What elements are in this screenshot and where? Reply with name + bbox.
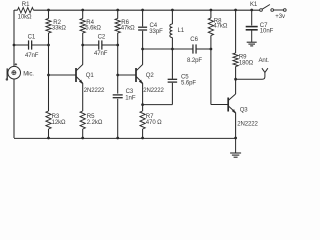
svg-text:K1: K1 [250, 2, 258, 8]
wire tank node to C6 [143, 48, 193, 50]
wire rail to R2 [48, 10, 50, 19]
junction Q2 emitter / C5 link [141, 103, 144, 106]
resistor R9 [233, 53, 238, 67]
wire top rail left segment [14, 9, 18, 11]
antenna Ant. [236, 68, 268, 79]
wire C3 to ground rail [117, 99, 119, 138]
wire R2 to R3 [48, 33, 50, 111]
junction rail/R9 [234, 9, 237, 12]
svg-text:10nF: 10nF [260, 28, 274, 34]
microphone Mic [7, 66, 20, 80]
wire Q3 emitter to ground rail [235, 113, 237, 139]
junction C2/R6 [116, 44, 119, 47]
junction rail/C4 [141, 9, 144, 12]
resistor R7 [140, 111, 145, 129]
svg-text:2.2kΩ: 2.2kΩ [87, 120, 103, 126]
svg-text:C1: C1 [28, 34, 36, 40]
wire Q1 base [49, 74, 77, 76]
transistor Q2 [136, 65, 143, 84]
wire R4 to Q1 collector [82, 33, 84, 65]
wire rail to R8 [210, 10, 212, 18]
capacitor C5 [168, 78, 178, 80]
wire emitter link [143, 104, 173, 106]
junction rail/R6 [116, 9, 119, 12]
junction rail/L1 [171, 9, 174, 12]
wire C1 to node [32, 44, 49, 46]
svg-text:47kΩ: 47kΩ [213, 24, 227, 30]
junction L1/C5 column on tank wire [171, 48, 174, 51]
wire R7 to ground rail [142, 129, 144, 138]
svg-text:8.2pF: 8.2pF [187, 58, 202, 64]
junction antenna tap [234, 78, 237, 81]
svg-text:2N2222: 2N2222 [143, 88, 164, 94]
resistor R1 [18, 8, 34, 13]
capacitor C2 [98, 40, 100, 49]
junction R5/ground rail [81, 137, 84, 140]
svg-text:2N2222: 2N2222 [84, 88, 105, 94]
ground under C7 [247, 30, 257, 46]
wire R8 to Q3 base [210, 36, 212, 105]
junction R3/ground rail [47, 137, 50, 140]
capacitor C3 [113, 94, 123, 96]
resistor R8 [208, 18, 213, 36]
svg-text:C3: C3 [126, 89, 134, 95]
wire rail to R6 [117, 10, 119, 19]
wire mic to C1 [14, 44, 28, 46]
junction mic/C1 [13, 44, 16, 47]
wire L1 to C5 [171, 38, 173, 79]
svg-text:Ant.: Ant. [259, 58, 270, 64]
junction Q2 base tap [116, 74, 119, 77]
capacitor C1 [28, 40, 30, 49]
junction C3/ground rail [116, 137, 119, 140]
wire C2 to node [102, 44, 118, 46]
svg-text:47kΩ: 47kΩ [121, 26, 135, 32]
svg-text:33kΩ: 33kΩ [52, 26, 66, 32]
svg-text:47nF: 47nF [25, 53, 39, 59]
(scan blob at mic capsule base) [6, 78, 8, 81]
junction rail/R8 [210, 9, 213, 12]
junction rail/R2 [47, 9, 50, 12]
svg-text:180Ω: 180Ω [239, 60, 254, 66]
resistor R4 [80, 19, 85, 34]
wire bottom rail [14, 137, 236, 139]
svg-text:C6: C6 [190, 37, 198, 43]
wire rail to C4 [142, 10, 144, 26]
wire left rail upper [13, 10, 15, 66]
mic plus polarity mark [15, 63, 17, 65]
svg-text:33pF: 33pF [149, 29, 163, 35]
transistor Q3 [228, 94, 235, 113]
svg-text:1nF: 1nF [125, 96, 136, 102]
junction C1/R2/R3 [47, 44, 50, 47]
capacitor C7 [246, 26, 258, 28]
svg-text:5.6pF: 5.6pF [181, 80, 196, 86]
svg-text:+3v: +3v [275, 14, 285, 20]
wire Q3 base [211, 104, 228, 106]
resistor R2 [46, 19, 51, 34]
svg-text:R1: R1 [22, 2, 30, 8]
junction rail/C7 [250, 9, 253, 12]
junction C6/R8 column [210, 48, 213, 51]
switch K1 [260, 5, 287, 12]
svg-text:47nF: 47nF [94, 51, 108, 57]
transistor Q1 [76, 65, 83, 84]
svg-text:2N2222: 2N2222 [237, 122, 258, 128]
wire C6 to R8 column [197, 48, 211, 50]
wire rail to L1 [171, 10, 173, 24]
wire Q2 emitter to R7 [142, 83, 144, 111]
wire Q1 collector to C2 [83, 44, 99, 46]
capacitor C4 [138, 26, 147, 28]
wire R6 to C3 [117, 33, 119, 94]
wire R9 to Q3 collector [235, 67, 237, 95]
resistor R6 [115, 19, 120, 34]
capacitor C6 [192, 44, 194, 53]
wire C5 to emitter link [171, 83, 173, 105]
wire R3 to ground rail [48, 129, 50, 138]
wire left rail lower [13, 79, 15, 138]
svg-text:Q3: Q3 [240, 108, 249, 114]
wire rail to C7 [251, 10, 253, 26]
wire rail to R4 [82, 10, 84, 19]
wire R5 to ground rail [82, 129, 84, 138]
junction C2 tap [81, 44, 84, 47]
svg-text:Q1: Q1 [86, 73, 95, 79]
resistor R5 [80, 111, 85, 129]
junction R7/ground rail [141, 137, 144, 140]
wire top rail [34, 9, 260, 11]
svg-text:Mic.: Mic. [23, 71, 34, 77]
wire Q1 emitter to R5 [82, 83, 84, 111]
junction rail/R4 [81, 9, 84, 12]
inductor L1 [170, 24, 173, 38]
svg-text:L1: L1 [178, 28, 185, 34]
wire rail to R9 [235, 10, 237, 53]
svg-text:470 Ω: 470 Ω [146, 120, 162, 126]
svg-text:Q2: Q2 [146, 73, 155, 79]
junction tank node at Q2 collector column [141, 48, 144, 51]
junction emitter/ground rail [234, 137, 237, 140]
junction Q1 base tap [47, 74, 50, 77]
ground under Q3 emitter [230, 138, 241, 157]
wire C4 to Q2 collector [142, 31, 144, 65]
svg-text:5.6kΩ: 5.6kΩ [85, 26, 101, 32]
resistor R3 [46, 111, 51, 129]
svg-text:C2: C2 [98, 34, 106, 40]
svg-text:12kΩ: 12kΩ [52, 120, 66, 126]
wire Q2 base [118, 74, 136, 76]
svg-text:10kΩ: 10kΩ [18, 15, 32, 21]
